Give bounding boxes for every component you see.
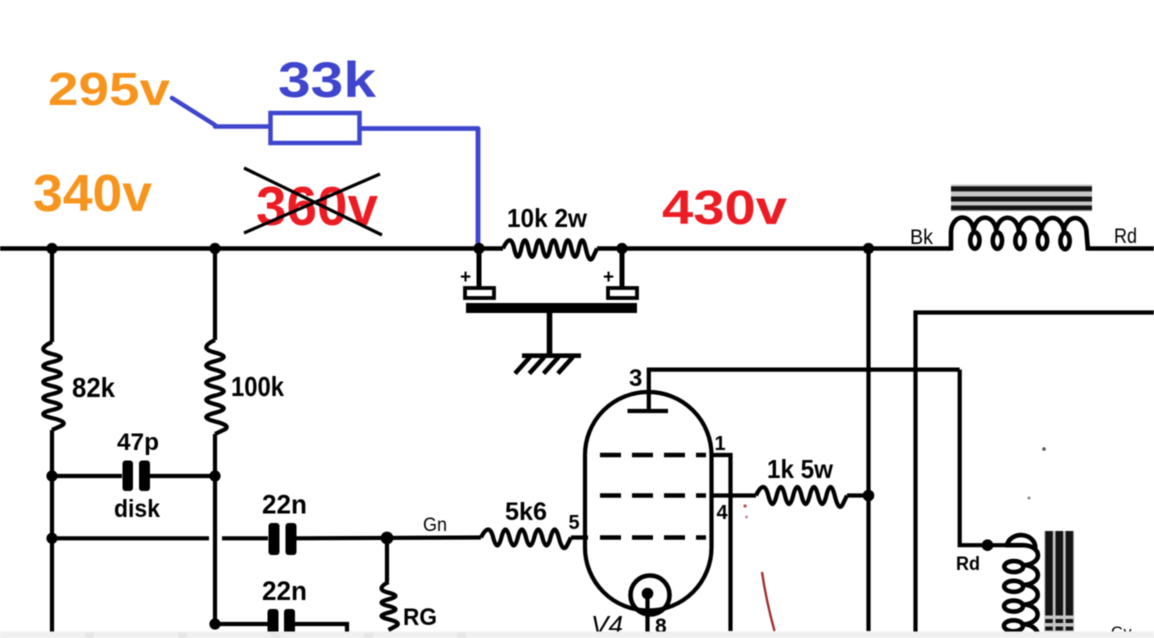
svg-text:1k 5w: 1k 5w: [767, 454, 834, 484]
tube plate bar: [628, 409, 669, 413]
capacitor C2 + plate: [608, 288, 637, 298]
wire pin1: [711, 455, 731, 631]
ground symbol teeth: [515, 357, 573, 374]
svg-text:4: 4: [717, 502, 729, 524]
resistor 5k6: [481, 530, 571, 549]
wire 100k lower vertical: [213, 434, 217, 624]
wire 22n to grid node: [297, 535, 482, 540]
wire 5k6 to tube pin5: [571, 535, 588, 539]
speck artifact dark: [1042, 447, 1046, 451]
tube grid dashes row1: [600, 453, 706, 458]
node junction at 100k: [209, 243, 220, 254]
wire pin8 cathode lead: [645, 594, 649, 633]
node junction screen rail: [863, 243, 874, 254]
svg-text:Rd: Rd: [1114, 225, 1137, 248]
svg-text:22n: 22n: [262, 576, 307, 606]
svg-text:340v: 340v: [33, 165, 152, 223]
tube grid dashes row3: [600, 535, 706, 540]
node junction 100k/47p: [209, 470, 220, 481]
wire pin4 to 1k5w: [711, 493, 756, 497]
inductor primary winding: [951, 218, 1088, 251]
wire screen supply vertical: [866, 249, 870, 632]
svg-text:+: +: [603, 267, 614, 288]
wire 47p row left: [52, 474, 122, 478]
resistor 10k 2w: [503, 238, 597, 259]
svg-text:Gn: Gn: [423, 515, 447, 536]
tube V4 envelope: [585, 392, 712, 611]
capacitor C1 + plate: [465, 288, 494, 298]
node junction 82k/22n: [46, 533, 57, 544]
tube cathode circle: [631, 576, 670, 615]
wire cap1 lead: [477, 249, 482, 289]
transformer core laminations top: [951, 185, 1092, 212]
svg-text:10k 2w: 10k 2w: [507, 203, 588, 233]
svg-text:disk: disk: [114, 495, 160, 523]
node junction 100k/22n lower: [209, 618, 220, 629]
node junction screen: [863, 490, 875, 502]
strikethrough X over 360v: [244, 168, 382, 235]
svg-text:Rd: Rd: [956, 554, 980, 575]
resistor 1k 5w: [756, 487, 847, 507]
svg-text:+: +: [460, 267, 471, 288]
wire RG lead: [385, 538, 389, 582]
svg-text:5k6: 5k6: [505, 498, 547, 526]
wire 100k branch vertical: [213, 249, 217, 341]
tube cathode dot: [642, 588, 654, 600]
capacitor 22n lower plates: [268, 609, 279, 638]
capacitor 47p plates: [123, 461, 134, 492]
capacitor 22n upper plates: [269, 523, 280, 555]
wire B+ rail left section: [0, 246, 951, 251]
svg-text:100k: 100k: [231, 371, 284, 402]
wire 22n row from 82k branch: [52, 536, 268, 540]
svg-text:47p: 47p: [117, 429, 159, 456]
node junction grid RG: [381, 532, 394, 545]
wire ground stem: [547, 313, 553, 355]
svg-text:3: 3: [629, 365, 642, 392]
svg-text:22n: 22n: [262, 490, 307, 520]
red annotation stroke: [762, 572, 775, 631]
svg-text:1: 1: [715, 433, 726, 455]
svg-text:5: 5: [569, 512, 580, 534]
ground symbol chassis bar: [522, 353, 581, 358]
inductor vertical winding: [1007, 535, 1035, 549]
transformer core laminations right: [1044, 531, 1074, 632]
wire bottom 22n row: [215, 624, 347, 632]
node junction cap2: [616, 243, 627, 254]
wire blue from 33k to node 430v: [360, 129, 478, 249]
wire 82k branch vertical: [50, 249, 54, 343]
wire cap2 lead: [620, 249, 625, 289]
svg-text:430v: 430v: [662, 182, 787, 235]
node junction at 82k: [46, 243, 57, 254]
svg-text:33k: 33k: [278, 52, 376, 108]
node junction 33k/cap1: [473, 243, 484, 254]
wire B+ rail right of transformer: [1088, 246, 1154, 251]
wire 1k5w to screen rail: [847, 493, 869, 497]
svg-text:295v: 295v: [48, 63, 170, 115]
node junction 82k/47p: [46, 470, 57, 481]
wire right frame corner: [916, 313, 1154, 633]
node junction Rd: [982, 539, 994, 551]
resistor R 33k body: [271, 113, 360, 143]
speck artifact red: [743, 504, 746, 507]
resistor 82k: [43, 342, 63, 430]
svg-text:RG: RG: [403, 604, 437, 631]
svg-text:Bk: Bk: [910, 226, 933, 249]
resistor RG: [382, 582, 398, 630]
wire 82k lower vertical: [50, 430, 54, 632]
wire anode to secondary transformer: [960, 370, 1007, 546]
browser edge strip: [0, 632, 1154, 638]
svg-text:82k: 82k: [72, 372, 115, 403]
wire 47p row right: [150, 474, 215, 478]
wire pin3 anode: [649, 370, 960, 411]
wire blue diagonal from 295v: [172, 98, 269, 127]
resistor 100k: [206, 340, 226, 434]
tube grid dashes row2: [600, 493, 706, 498]
capacitor common negative plate: [466, 303, 637, 313]
